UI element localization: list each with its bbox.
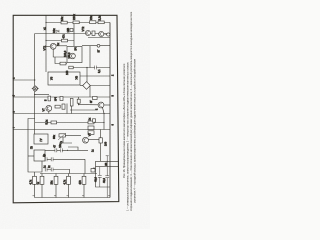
svg-text:VT: VT (42, 108, 45, 112)
wire: bus v (13, 113, 110, 115)
box K3 (91, 169, 95, 173)
resistor R6 (62, 39, 68, 42)
wire: diamond drop (89, 86, 91, 98)
figure caption line 3 (129, 11, 133, 211)
wire: terminal link (104, 33, 107, 35)
wire: mid drop (84, 159, 86, 173)
resistor R1 (61, 21, 67, 24)
svg-text:470: 470 (79, 180, 82, 185)
figure caption line 2 (126, 62, 130, 211)
wire: RP1 link (65, 135, 81, 137)
wire: row c3 (45, 169, 70, 171)
wire: R22 leads (83, 174, 85, 198)
ground hook 1 (33, 195, 35, 197)
wire: right row A (96, 160, 119, 162)
wire: R20 leads (55, 174, 57, 198)
wire: row c2 (45, 158, 85, 160)
figure caption line 4 (132, 58, 136, 203)
capacitor C6 (45, 157, 47, 161)
block U1 (48, 72, 80, 85)
resistor R20 (54, 176, 58, 184)
wire: emitter row (88, 37, 110, 39)
wire: row p105 (79, 104, 99, 106)
transistor VT4 (70, 53, 76, 59)
wire: R18 leads (34, 172, 36, 198)
wire: third rail segment (46, 40, 74, 42)
resistor R3 (90, 21, 96, 24)
capacitor C8 (45, 168, 47, 172)
svg-text:0,1: 0,1 (97, 69, 101, 73)
svg-text:100: 100 (105, 141, 108, 146)
winding W1 (88, 126, 94, 130)
wire: vertical drop (73, 24, 75, 46)
transistor VT3 (99, 31, 104, 36)
transistor VT1 (50, 43, 56, 49)
svg-text:ГУ: ГУ (39, 138, 43, 141)
ground hook 4 (82, 195, 84, 197)
wire: right vertical bus (109, 23, 111, 198)
transistor VT7 (83, 137, 89, 143)
wire: VT7 out (88, 139, 99, 141)
wire: row c1 (45, 149, 88, 151)
resistor R21 (67, 176, 71, 184)
svg-text:220к: 220к (72, 13, 76, 20)
wire: left branch (28, 119, 42, 173)
wire: mid rail (69, 67, 110, 69)
head B1 (34, 134, 48, 144)
wire: base stub (46, 45, 50, 47)
wire: bus g (13, 129, 110, 131)
svg-text:100,0: 100,0 (64, 50, 67, 57)
svg-text:ЗЗк: ЗЗк (52, 28, 56, 33)
svg-text:3В: 3В (105, 162, 108, 165)
wire: R21 leads (68, 174, 70, 198)
node b-junction (34, 94, 35, 95)
wire: cluster top link (35, 94, 49, 96)
wire: inner left vertical (34, 34, 36, 135)
wire: top horizontal rail (46, 22, 110, 24)
node rA (107, 161, 108, 162)
svg-text:ГВ: ГВ (31, 146, 34, 149)
resistor R22 (82, 176, 86, 184)
wire: row g1 (35, 122, 104, 124)
wire: zg row (82, 45, 110, 47)
resistor R8 (69, 66, 73, 69)
node D (86, 67, 87, 68)
winding W2 (88, 131, 94, 135)
node B (73, 22, 74, 23)
jack X1 (33, 86, 38, 91)
block U2 (67, 47, 82, 63)
svg-text:НЧ: НЧ (54, 97, 58, 101)
wire: lower link (55, 57, 67, 64)
schematic frame (13, 15, 119, 203)
node E (103, 113, 104, 114)
resistor R18 (33, 176, 37, 184)
wire: pot drop (63, 138, 72, 144)
svg-text:VT1: VT1 (42, 45, 46, 50)
svg-text:х1: х1 (43, 27, 47, 30)
wire: c3 drop (69, 170, 71, 174)
svg-text:VT2: VT2 (81, 26, 85, 31)
resistor R4 (98, 21, 104, 24)
ground hook 3 (67, 195, 69, 197)
wire: upper right link (80, 75, 110, 77)
ground hook 2 (54, 195, 56, 197)
capacitor C5 (60, 148, 62, 152)
wire: R19 leads (41, 174, 43, 198)
wire: cluster drop (66, 104, 68, 114)
svg-text:стирания и подмагничивания; 3: стирания и подмагничивания; 3 — блок пит… (129, 11, 133, 211)
wire: R12 link (78, 97, 80, 105)
wire: right row B (96, 166, 119, 168)
resistor R16 (88, 121, 94, 124)
wire: VT6 emitter drop (48, 111, 50, 113)
resistor R5 (92, 31, 95, 35)
node C (45, 40, 46, 41)
capacitor C3 (95, 66, 97, 70)
figure caption line 1 (122, 63, 126, 178)
wire: R11 drop (71, 106, 73, 114)
svg-text:40,0: 40,0 (95, 177, 98, 182)
resistor R10 (60, 97, 63, 101)
ground hook 5 (108, 195, 110, 197)
terminal X3 (97, 44, 100, 47)
svg-text:100: 100 (65, 70, 69, 75)
resistor R13 (55, 105, 60, 108)
capacitor C10 (98, 167, 102, 187)
transistor VT6 (46, 105, 52, 111)
mixer diamond (83, 82, 91, 90)
resistor R9 (48, 96, 51, 101)
wire: short row (70, 109, 97, 111)
wire: VT5 link (104, 104, 110, 106)
component K1 (93, 97, 98, 100)
wire: ground rail (35, 197, 111, 199)
node a-junction (34, 79, 35, 80)
capacitor C11 (105, 174, 109, 198)
resistor R15 (51, 121, 57, 124)
svg-text:УЗ: УЗ (50, 76, 54, 80)
node G (67, 150, 68, 151)
wire: VT5 emitter (103, 108, 105, 114)
head B2 (34, 150, 45, 161)
wire: block output (89, 46, 91, 68)
svg-text:2,2к: 2,2к (98, 15, 102, 21)
wire: C11 feed (106, 156, 109, 174)
wire: R17 drop (100, 143, 102, 161)
svg-text:усилителя; 4 — выходной каскад: усилителя; 4 — выходной каскад с громког… (132, 58, 136, 203)
wire: jog (68, 147, 78, 150)
box R12 (77, 99, 80, 103)
svg-text:VT: VT (89, 133, 92, 137)
node F (103, 122, 104, 123)
wire: second horizontal rail (35, 33, 110, 35)
capacitor C7 (51, 157, 53, 161)
resistor R19 (40, 176, 44, 184)
svg-text:г: г (12, 127, 15, 128)
node p105 (78, 104, 79, 105)
capacitor C9 (51, 168, 53, 172)
svg-text:ВЧ: ВЧ (75, 47, 78, 51)
diode VD1 (56, 30, 59, 33)
svg-text:1 — универсальный усилитель за: 1 — универсальный усилитель записи и вос… (126, 62, 130, 211)
transistor VT5 (98, 102, 104, 108)
resistor R14 (62, 104, 65, 109)
wire: R17 up (100, 130, 102, 138)
terminal X2 (107, 33, 110, 36)
wire: right branch (96, 161, 111, 187)
wire: diamond right (90, 85, 110, 87)
wire: diamond left (80, 85, 83, 87)
transistor VT2 (85, 30, 90, 35)
wire: emitter drop (53, 49, 67, 57)
wire: vert link (103, 114, 105, 130)
resistor R7 (60, 62, 66, 65)
wire: bus b (13, 96, 110, 98)
wire: drop to mixer (86, 68, 88, 83)
potentiometer RP1 (59, 134, 65, 137)
wire: input a (13, 79, 35, 81)
resistor R11 (70, 99, 73, 107)
capacitor C4 (55, 148, 57, 152)
resistor R2 (73, 21, 79, 24)
wire: left vertical bus (45, 15, 47, 72)
svg-text:16В: 16В (66, 28, 70, 33)
wire: bottom rail (40, 173, 97, 175)
node A (45, 22, 46, 23)
svg-text:Рис. 36. Принципиальная схема: Рис. 36. Принципиальная схема кассетного… (122, 63, 126, 178)
svg-text:40,0: 40,0 (103, 178, 106, 183)
wire: collector link (56, 45, 67, 47)
box K2 (93, 119, 96, 122)
svg-text:УВ: УВ (75, 76, 79, 80)
wire: B2 stub (28, 155, 34, 157)
capacitor C1 (70, 29, 73, 32)
resistor R17 (99, 138, 102, 143)
